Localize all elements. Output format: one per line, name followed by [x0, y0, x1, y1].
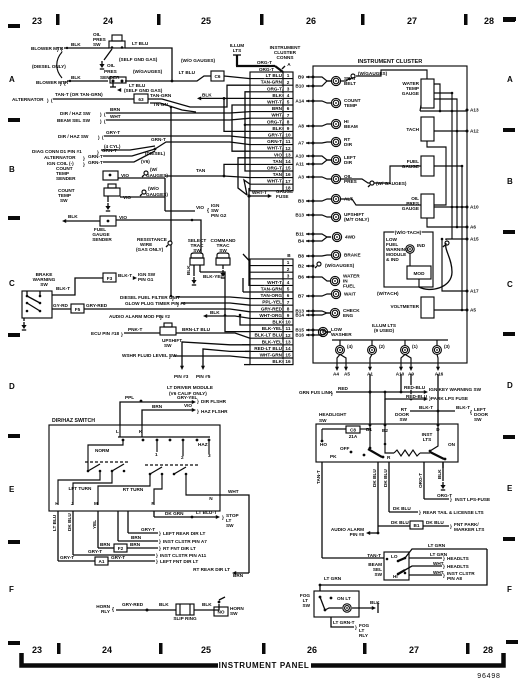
grid top numbers	[32, 16, 494, 26]
svg-text:25: 25	[201, 645, 211, 655]
svg-text:(W/O TACH): (W/O TACH)	[395, 230, 422, 235]
svg-text:7: 7	[287, 113, 290, 118]
svg-text:OIL: OIL	[107, 63, 115, 68]
svg-text:A3: A3	[298, 175, 304, 180]
svg-text:ECU PIN #18: ECU PIN #18	[91, 331, 120, 336]
svg-text:REAR TAIL & LICENSE LTS: REAR TAIL & LICENSE LTS	[423, 510, 484, 515]
lamp illum (2)	[368, 346, 377, 355]
svg-text:LT BLU: LT BLU	[179, 70, 196, 75]
svg-text:A12: A12	[470, 129, 479, 134]
svg-text:D: D	[507, 381, 513, 390]
svg-text:INST LPS-FUSE: INST LPS-FUSE	[455, 497, 490, 502]
svg-text:63: 63	[138, 97, 144, 102]
lamp fog on lt	[343, 604, 351, 612]
svg-text:14: 14	[285, 346, 291, 351]
headlight sw contacts	[321, 440, 324, 443]
wire WHT from N	[220, 495, 249, 573]
svg-text:TAN-T: TAN-T	[316, 470, 321, 484]
svg-text:M: M	[94, 501, 98, 506]
svg-text:VIO: VIO	[121, 173, 129, 178]
svg-text:GRY-RED: GRY-RED	[122, 602, 144, 607]
svg-text:GAUGE: GAUGE	[402, 91, 419, 96]
svg-text:BRAKE: BRAKE	[344, 253, 361, 258]
svg-text:NO: NO	[217, 610, 224, 615]
svg-text:B13: B13	[295, 213, 304, 218]
svg-text:GRY-YEL: GRY-YEL	[177, 395, 198, 400]
svg-text:}: }	[160, 315, 162, 320]
svg-text:B: B	[9, 165, 15, 174]
wires gauge fuse node	[244, 180, 250, 195]
ground oil press sender	[112, 83, 114, 87]
wire BRN	[106, 112, 250, 113]
svg-text:4: 4	[287, 93, 290, 98]
wire PNK-T	[124, 332, 160, 334]
svg-text:GRN-T: GRN-T	[267, 139, 282, 144]
svg-text:PRES: PRES	[344, 179, 357, 184]
svg-text:A15: A15	[470, 237, 479, 242]
svg-text:4: 4	[287, 280, 290, 285]
svg-text:BLK-T: BLK-T	[56, 286, 70, 291]
wire A1 vertical	[369, 374, 371, 424]
wire WHT-T pins 5-12 link	[232, 105, 250, 151]
svg-text:B: B	[507, 177, 513, 186]
svg-text:}: }	[159, 546, 161, 551]
svg-text:}: }	[443, 564, 445, 569]
svg-text:YEL: YEL	[92, 520, 97, 529]
svg-text:24: 24	[103, 16, 113, 26]
wire glow plug to pin 7	[181, 303, 250, 305]
svg-text:TAN: TAN	[196, 168, 206, 173]
indicator lamp WATER IN FUEL	[330, 276, 339, 285]
voltmeter	[421, 297, 434, 318]
svg-text:}: }	[169, 354, 171, 359]
svg-text:(W/TACH): (W/TACH)	[377, 291, 399, 296]
svg-text:LT DRIVER MODULE: LT DRIVER MODULE	[167, 385, 213, 390]
wire BRN inst clstr A7	[118, 540, 158, 542]
svg-text:WHT-T: WHT-T	[267, 146, 282, 151]
svg-text:BELT: BELT	[344, 81, 356, 86]
svg-text:VIO: VIO	[274, 152, 282, 157]
svg-text:13: 13	[285, 152, 291, 157]
svg-text:}: }	[83, 162, 85, 167]
svg-text:1: 1	[287, 260, 290, 265]
wire lt driver module pin 5	[203, 349, 250, 366]
svg-text:BLK: BLK	[71, 75, 81, 80]
svg-text:OFF: OFF	[340, 446, 350, 451]
svg-text:(W/O: (W/O	[148, 186, 159, 191]
svg-text:LEFT FNT DIR LT: LEFT FNT DIR LT	[160, 559, 198, 564]
svg-text:RED-LT BLU: RED-LT BLU	[254, 346, 282, 351]
svg-text:BLK-T: BLK-T	[118, 273, 132, 278]
indicator lamp WAIT	[331, 289, 340, 298]
svg-text:{: {	[470, 410, 472, 416]
svg-text:RLY: RLY	[101, 609, 111, 614]
svg-text:SENDER: SENDER	[92, 237, 112, 242]
svg-text:(GAS ONLY): (GAS ONLY)	[136, 247, 164, 252]
svg-text:(3): (3)	[444, 344, 450, 349]
wire WHT-T gauge fuse	[247, 194, 250, 197]
ground select trac	[193, 277, 195, 280]
wire GRY-T A1 left fnt dir lt	[58, 560, 95, 562]
svg-text:BEAM: BEAM	[344, 124, 358, 129]
grid bottom numbers	[32, 645, 493, 655]
dir/haz top contacts	[119, 425, 121, 437]
svg-text:INSTRUMENT CLUSTER: INSTRUMENT CLUSTER	[358, 59, 423, 65]
svg-text:TACH: TACH	[406, 127, 419, 132]
w/gauges curl mid	[370, 181, 374, 185]
svg-text:TAN-GRN: TAN-GRN	[150, 93, 172, 98]
wire washer fluid to pin 15	[174, 356, 250, 358]
svg-text:BLK-T: BLK-T	[456, 405, 470, 410]
svg-text:BLK-YEL: BLK-YEL	[262, 326, 282, 331]
grid bottom ticks	[8, 640, 518, 654]
fuse F2	[114, 544, 127, 552]
svg-text:HEADLIGHT: HEADLIGHT	[319, 412, 346, 417]
svg-text:BLK-LT BLU: BLK-LT BLU	[254, 333, 282, 338]
wire A10 A9 verticals	[400, 374, 402, 392]
lamp IND	[406, 245, 414, 253]
svg-text:3: 3	[287, 273, 290, 278]
svg-text:J: J	[71, 501, 74, 506]
svg-text:LTS: LTS	[423, 437, 432, 442]
svg-text:LT BLU-T: LT BLU-T	[196, 510, 217, 515]
svg-text:(W/: (W/	[150, 167, 158, 172]
svg-text:TAN: TAN	[273, 159, 283, 164]
upshift switch	[160, 327, 176, 335]
svg-text:24: 24	[102, 645, 112, 655]
svg-text:BRN: BRN	[152, 404, 163, 409]
svg-text:B7: B7	[298, 294, 304, 299]
svg-text:F2: F2	[118, 546, 124, 551]
svg-text:WHT-T: WHT-T	[252, 190, 267, 195]
svg-text:ORG-T: ORG-T	[259, 67, 274, 72]
svg-text:1: 1	[287, 73, 290, 78]
svg-text:VOLTMETER: VOLTMETER	[390, 304, 419, 309]
svg-text:WHT: WHT	[228, 489, 239, 494]
svg-text:BLK: BLK	[71, 42, 81, 47]
svg-text:15: 15	[285, 353, 291, 358]
svg-text:GRN-T: GRN-T	[151, 137, 166, 142]
svg-text:}: }	[419, 510, 421, 515]
svg-text:FUSE: FUSE	[276, 194, 289, 199]
svg-text:A5: A5	[470, 308, 476, 313]
svg-text:HAZ FLSHR: HAZ FLSHR	[201, 409, 228, 414]
svg-text:BLK: BLK	[202, 602, 212, 607]
svg-text:MOD: MOD	[414, 271, 426, 276]
svg-text:LEFT REAR DIR LT: LEFT REAR DIR LT	[163, 531, 205, 536]
svg-text:26: 26	[307, 645, 317, 655]
wire TAN-GRN stub pin 5	[243, 291, 250, 293]
s-curve wire to A15	[419, 243, 452, 289]
svg-text:DK BLU: DK BLU	[393, 506, 411, 511]
svg-text:SLIP RING: SLIP RING	[173, 616, 197, 621]
svg-text:B6: B6	[298, 275, 304, 280]
svg-text:TAN-T: TAN-T	[367, 553, 381, 558]
circuit breaker C8	[346, 426, 360, 433]
svg-text:E: E	[507, 484, 513, 493]
wire TAN-T alternator	[53, 98, 134, 100]
svg-text:L: L	[116, 429, 119, 434]
cluster internal right wires	[434, 93, 452, 239]
wire A17	[442, 239, 467, 291]
svg-text:LTS: LTS	[233, 48, 242, 53]
svg-text:WHT: WHT	[271, 113, 282, 118]
wire DK GRN stop lt sw	[154, 516, 216, 518]
svg-text:15: 15	[285, 166, 291, 171]
svg-text:SENDER: SENDER	[56, 176, 76, 181]
svg-text:F5: F5	[75, 307, 81, 312]
svg-text:BRN: BRN	[100, 542, 111, 547]
svg-text:2: 2	[287, 80, 290, 85]
svg-text:WAIT: WAIT	[344, 292, 356, 297]
svg-text:A: A	[507, 75, 513, 84]
wire BLK to horn sw	[194, 609, 215, 611]
svg-text:16: 16	[285, 359, 291, 364]
svg-text:ORG-T: ORG-T	[267, 166, 282, 171]
svg-text:DIR: DIR	[344, 160, 353, 165]
wire RED	[336, 391, 370, 393]
svg-text:21A: 21A	[349, 434, 358, 439]
svg-text:2: 2	[287, 267, 290, 272]
svg-text:13: 13	[285, 339, 291, 344]
svg-text:A6: A6	[470, 225, 476, 230]
indicator lamp OIL PRES	[331, 174, 340, 183]
svg-text:(4): (4)	[347, 344, 353, 349]
svg-text:GRY-T: GRY-T	[106, 130, 120, 135]
lamp illum (1)	[401, 346, 410, 355]
svg-text:B2: B2	[298, 264, 304, 269]
wire GRY-T left rear dir lt	[128, 532, 158, 534]
w/gauges curl B2	[317, 262, 321, 266]
wire into B pin 1	[243, 254, 250, 262]
wire VIO pin13	[238, 158, 250, 195]
svg-text:GRN FUS LINK: GRN FUS LINK	[299, 390, 333, 395]
gauge fuel	[421, 156, 434, 176]
svg-text:}: }	[450, 524, 452, 529]
wire ORG-T pins 3-8-15 link	[245, 92, 250, 171]
svg-text:B10: B10	[295, 84, 304, 89]
svg-text:}: }	[156, 559, 158, 564]
svg-text:LT BLU: LT BLU	[129, 83, 146, 88]
dir/haz mid contacts	[85, 461, 130, 463]
svg-text:RLY: RLY	[359, 633, 369, 638]
svg-text:HAZ: HAZ	[198, 442, 208, 447]
svg-text:BRN: BRN	[110, 107, 121, 112]
wire VIO bus vertical	[164, 178, 166, 211]
svg-text:{: {	[112, 607, 114, 613]
slip ring	[176, 604, 194, 615]
svg-text:LT GRN: LT GRN	[324, 576, 342, 581]
svg-text:LT BLU: LT BLU	[52, 514, 57, 531]
indicator lamp LEFT DIR	[331, 155, 340, 164]
svg-text:GAUGE: GAUGE	[402, 206, 419, 211]
svg-text:}: }	[355, 625, 357, 630]
bottom title bracket	[22, 653, 219, 666]
wire to pin 10	[240, 315, 250, 325]
svg-text:DIR/HAZ SWITCH: DIR/HAZ SWITCH	[52, 418, 95, 424]
svg-text:INSTRUMENT PANEL: INSTRUMENT PANEL	[219, 661, 310, 670]
ground brake warning sw	[23, 318, 25, 321]
svg-text:LO: LO	[391, 554, 398, 559]
connector A1	[95, 557, 108, 565]
connector C6	[211, 71, 224, 81]
wire A5 voltmeter	[434, 309, 467, 311]
svg-text:12: 12	[285, 146, 291, 151]
svg-text:VIO: VIO	[196, 205, 204, 210]
svg-text:9: 9	[287, 126, 290, 131]
gauge tach	[421, 117, 434, 141]
svg-text:HEADLTS: HEADLTS	[447, 556, 469, 561]
svg-text:A16: A16	[435, 372, 444, 377]
svg-text:SW: SW	[474, 417, 482, 422]
svg-text:A5: A5	[344, 372, 350, 377]
svg-text:IND: IND	[417, 243, 426, 248]
ground command trac	[222, 265, 224, 269]
svg-text:(W/GAUGES): (W/GAUGES)	[358, 71, 388, 76]
svg-text:GAUGES): GAUGES)	[146, 173, 168, 178]
svg-text:ORG-T: ORG-T	[257, 60, 272, 65]
svg-text:GRY-T: GRY-T	[60, 555, 74, 560]
svg-text:WHT-T: WHT-T	[267, 179, 282, 184]
connector A box	[250, 72, 293, 191]
svg-text:VIO: VIO	[119, 215, 127, 220]
wire ORG-T illum feed	[236, 65, 275, 67]
svg-text:TAN-ORG: TAN-ORG	[260, 293, 282, 298]
svg-text:8: 8	[287, 119, 290, 124]
svg-text:A1: A1	[99, 559, 105, 564]
svg-text:A7: A7	[298, 141, 304, 146]
svg-text:BLK-YEL: BLK-YEL	[203, 274, 223, 279]
svg-text:7: 7	[287, 300, 290, 305]
svg-text:BRN: BRN	[131, 535, 142, 540]
wire VIO fuel sender	[116, 220, 201, 253]
svg-text:P: P	[151, 501, 154, 506]
svg-text:25: 25	[201, 16, 211, 26]
wire to oil press gauge	[341, 199, 421, 205]
svg-text:A10: A10	[470, 205, 479, 210]
svg-text:WHT-GRN: WHT-GRN	[260, 353, 283, 358]
headlight sw bottom pins	[321, 462, 323, 468]
svg-text:A14: A14	[295, 99, 304, 104]
svg-text:IGN KEY WARNING SW: IGN KEY WARNING SW	[429, 387, 482, 392]
svg-text:ON: ON	[448, 442, 456, 447]
svg-text:}: }	[159, 539, 161, 544]
svg-text:17: 17	[285, 179, 291, 184]
svg-text:BLK: BLK	[437, 469, 442, 479]
svg-text:TAN-GRN: TAN-GRN	[261, 80, 283, 85]
svg-text:}: }	[450, 497, 452, 502]
svg-text:ENG: ENG	[343, 313, 354, 318]
svg-text:HEADLTS: HEADLTS	[447, 564, 469, 569]
svg-text:DIAG CONN D1 PIN #1: DIAG CONN D1 PIN #1	[32, 149, 82, 154]
svg-text:BLK: BLK	[68, 214, 78, 219]
svg-text:PIN A8: PIN A8	[447, 576, 462, 581]
svg-text:& IND: & IND	[386, 257, 399, 262]
svg-text:PIN G1: PIN G1	[138, 277, 154, 282]
svg-text:SW: SW	[399, 417, 407, 422]
svg-text:(2): (2)	[379, 344, 385, 349]
svg-text:SW: SW	[40, 282, 48, 287]
svg-text:}: }	[83, 156, 85, 161]
svg-text:BRN-LT BLU: BRN-LT BLU	[182, 327, 211, 332]
svg-text:DIR FLSHR: DIR FLSHR	[201, 399, 227, 404]
grid left letters	[9, 75, 15, 594]
svg-text:ALTERNATOR: ALTERNATOR	[44, 155, 76, 160]
svg-text:9: 9	[287, 313, 290, 318]
svg-text:}: }	[121, 332, 123, 337]
svg-text:(SELF GND GAS): (SELF GND GAS)	[119, 57, 158, 62]
svg-text:(9 USED): (9 USED)	[374, 328, 394, 333]
indicator lamp SEAT BELT	[331, 76, 340, 85]
indicator lamp LOW WASHER	[318, 327, 327, 336]
svg-text:B4: B4	[298, 239, 304, 244]
svg-text:BLK: BLK	[202, 92, 212, 97]
svg-text:SW: SW	[93, 42, 101, 47]
fog light switch	[314, 591, 359, 617]
svg-text:(W/O GAUGES): (W/O GAUGES)	[181, 58, 216, 63]
lamp lead wires	[313, 77, 331, 81]
wire to water temp gauge	[356, 70, 427, 79]
wire BLK pin9 link	[224, 98, 250, 131]
wire B2 vertical	[384, 399, 386, 424]
svg-text:4WD: 4WD	[345, 235, 356, 240]
svg-text:DIR / HAZ SW: DIR / HAZ SW	[58, 134, 89, 139]
svg-text:C: C	[507, 280, 513, 289]
svg-text:TAN-GRN: TAN-GRN	[261, 287, 283, 292]
gauge oil press	[421, 194, 434, 218]
svg-text:10: 10	[285, 133, 291, 138]
svg-text:WHT-T: WHT-T	[267, 100, 282, 105]
indicator lamp UPSHIFT	[331, 212, 340, 221]
svg-text:WHT-ORG: WHT-ORG	[259, 313, 282, 318]
svg-text:LT GRN-T: LT GRN-T	[333, 620, 355, 625]
svg-text:14: 14	[285, 159, 291, 164]
svg-text:A: A	[9, 75, 15, 84]
wire BLK top row	[197, 96, 201, 100]
svg-text:11: 11	[286, 139, 291, 144]
svg-text:B9: B9	[298, 75, 304, 80]
svg-text:C8: C8	[350, 428, 356, 433]
svg-text:BLK: BLK	[272, 320, 282, 325]
svg-text:BLK: BLK	[272, 126, 282, 131]
svg-text:LT BLU: LT BLU	[266, 73, 283, 78]
svg-text:PK: PK	[330, 454, 337, 459]
svg-text:ON LT: ON LT	[337, 596, 351, 601]
svg-text:GRY-T: GRY-T	[111, 555, 125, 560]
svg-text:}: }	[331, 391, 333, 396]
svg-text:SW: SW	[60, 198, 68, 203]
svg-text:TEMP: TEMP	[344, 103, 357, 108]
svg-text:1: 1	[155, 452, 158, 457]
wire LT GRN-T fog rly	[331, 617, 354, 627]
svg-text:8: 8	[287, 306, 290, 311]
wire GRY-T	[104, 136, 250, 138]
svg-text:BLK: BLK	[370, 600, 380, 605]
svg-text:GRN-T: GRN-T	[88, 160, 103, 165]
svg-text:6: 6	[287, 293, 290, 298]
svg-text:BLK: BLK	[186, 265, 191, 275]
svg-text:ORG-T: ORG-T	[267, 119, 282, 124]
svg-text:BLOWER MTR: BLOWER MTR	[31, 46, 64, 51]
svg-text:PIN #5: PIN #5	[196, 374, 211, 379]
svg-text:}PARK LPS FUSE: }PARK LPS FUSE	[429, 396, 468, 401]
svg-text:NORM: NORM	[95, 448, 109, 453]
svg-text:B16: B16	[295, 333, 304, 338]
wire diesel fuel filter to pin 6	[176, 297, 250, 299]
wire D vertical	[437, 374, 439, 424]
gauge water temp	[421, 79, 434, 108]
wire VIO switch	[120, 196, 165, 198]
